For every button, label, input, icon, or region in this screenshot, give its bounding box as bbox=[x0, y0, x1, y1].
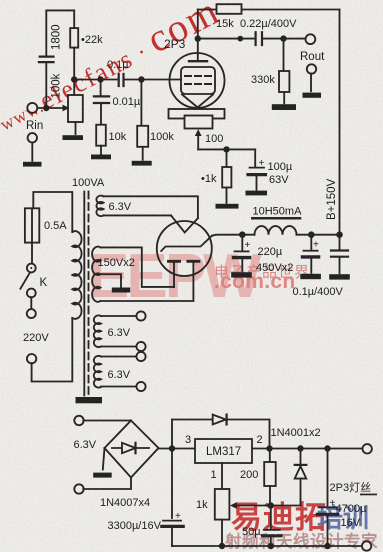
tube U1 2P3 envelope bbox=[170, 53, 225, 108]
ground 10k bbox=[91, 155, 111, 160]
capacitor 4700u bbox=[317, 449, 337, 547]
wire bridge to LM317 bbox=[159, 448, 196, 450]
diode D1 bypass bbox=[172, 415, 270, 449]
capacitor 0.1u 400V bbox=[331, 235, 348, 274]
node stray dot bbox=[237, 36, 243, 42]
tube U2 plate right bbox=[188, 261, 199, 300]
wire output rail bbox=[252, 448, 363, 450]
ground cap2 bbox=[300, 274, 321, 279]
node cap2 junction bbox=[308, 231, 315, 238]
tube 2P3 filament bbox=[182, 95, 213, 108]
node D2 out junction bbox=[297, 445, 303, 451]
wire input vertical bbox=[171, 420, 173, 519]
node adj junction bbox=[268, 502, 274, 508]
node cap1 junction bbox=[239, 231, 246, 238]
node cap3 junction bbox=[336, 231, 343, 238]
node 330k junction bbox=[280, 35, 286, 41]
choke L1 core bbox=[252, 217, 300, 220]
node 4700u bottom bbox=[324, 543, 330, 549]
terminal output minus bbox=[362, 541, 371, 550]
capacitor 0.22u 400V bbox=[256, 32, 262, 45]
underline 灯丝 bbox=[360, 494, 377, 496]
choke L1 coil bbox=[255, 226, 297, 235]
tube U2 filament V bbox=[171, 215, 198, 232]
terminal 220V upper bbox=[27, 309, 36, 318]
transformer core solid bbox=[83, 192, 85, 396]
regulator LM317 bbox=[195, 439, 252, 463]
potentiometer 100 hum bbox=[185, 116, 213, 150]
wire B+ rail bbox=[339, 10, 341, 235]
capacitor 3300u bbox=[162, 521, 183, 546]
ground 100u bbox=[246, 191, 268, 196]
ground pot bbox=[63, 135, 84, 140]
watermark www.elecfans.com diagonal bbox=[0, 0, 227, 139]
node 100k junction bbox=[138, 76, 144, 82]
ground cap3 bbox=[329, 274, 350, 279]
resistor 10k bbox=[96, 125, 106, 154]
bridge internal diode bbox=[112, 443, 149, 453]
bridge 1N4007x4 diamond bbox=[105, 421, 159, 478]
node 0.01u junction bbox=[97, 76, 103, 82]
winding 6.3V rectifier bbox=[96, 196, 198, 219]
capacitor 50u bbox=[263, 506, 281, 547]
node plate junction bbox=[195, 35, 201, 41]
potentiometer 1k adj bbox=[215, 463, 230, 546]
capacitor 100u 6.3V bbox=[248, 149, 266, 189]
node grid network junction bbox=[71, 76, 77, 82]
terminal sec2 top bbox=[136, 311, 145, 320]
capacitor 220u no2 bbox=[303, 235, 319, 273]
tube U2 cathode bar bbox=[161, 236, 212, 251]
resistor 330k bbox=[279, 39, 289, 104]
wire grid rail bbox=[74, 79, 181, 81]
scan noise overlay bbox=[0, 0, 1, 1]
resistor 15k bbox=[217, 4, 242, 14]
terminal 220V lower bbox=[27, 318, 72, 382]
ground Rout bbox=[303, 93, 322, 98]
winding primary bbox=[72, 231, 81, 319]
terminal Rin signal bbox=[27, 103, 37, 113]
ground core bbox=[76, 397, 103, 403]
tube U2 rectifier envelope bbox=[157, 221, 212, 276]
fuse 0.5A bbox=[25, 208, 39, 263]
transformer core dashed bbox=[88, 192, 90, 396]
tube U2 plate left bbox=[169, 261, 180, 287]
node D1 out junction bbox=[266, 445, 272, 451]
tube 2P3 grid box bbox=[181, 67, 215, 94]
terminal 6.3V in bottom bbox=[74, 478, 131, 494]
capacitor 0.01u bbox=[94, 80, 109, 125]
wire top-left frame bbox=[46, 10, 74, 55]
wire HV center tap bbox=[101, 274, 122, 287]
terminal Rout signal bbox=[306, 34, 316, 44]
wire plate top rail bbox=[198, 9, 340, 11]
resistor 100k grid leak bbox=[137, 80, 148, 160]
resistor 200 bbox=[264, 449, 276, 506]
terminal Rin ground bbox=[28, 133, 37, 161]
ground center tap bbox=[112, 288, 130, 293]
diode D2 protect bbox=[295, 449, 307, 506]
capacitor 220u no1 bbox=[234, 235, 250, 271]
winding 6.3V sec3 bbox=[94, 356, 137, 388]
wire B+ filter rail bbox=[212, 235, 340, 236]
wiper 1k arrow bbox=[230, 502, 301, 509]
terminal output plus bbox=[363, 444, 372, 453]
terminal sec3 top bbox=[136, 352, 145, 361]
capacitor 0.1u bbox=[119, 74, 124, 86]
terminal sec3 bottom bbox=[136, 382, 145, 391]
terminal sec2 bottom bbox=[136, 342, 145, 351]
ground bridge bbox=[93, 448, 112, 478]
ground 100k bbox=[132, 161, 152, 166]
terminal Rout ground bbox=[307, 64, 316, 91]
potentiometer 100k bbox=[36, 80, 83, 135]
wire mains top bbox=[33, 192, 72, 232]
node 1k bottom bbox=[219, 543, 225, 549]
winding 150Vx2 bbox=[92, 247, 193, 302]
filament terminal box bbox=[169, 109, 225, 119]
node cathode junction bbox=[223, 146, 229, 152]
tube 2P3 plate bbox=[189, 10, 207, 62]
wire bottom rail bbox=[172, 545, 362, 547]
winding 6.3V sec2 bbox=[94, 315, 137, 347]
ground cap1 bbox=[231, 272, 252, 277]
node input junction bbox=[169, 445, 175, 451]
switch K bbox=[20, 264, 35, 310]
node 4700u junction bbox=[324, 445, 330, 451]
resistor 22k bbox=[70, 28, 78, 79]
resistor 1k cathode bbox=[222, 149, 231, 202]
wire cathode rail bbox=[198, 148, 255, 150]
ground 1k bbox=[216, 204, 239, 209]
wire output coupling bbox=[198, 38, 305, 40]
node 50u bottom bbox=[268, 543, 274, 549]
capacitor 1800 bbox=[39, 57, 54, 108]
ground 330k bbox=[272, 104, 296, 110]
ground Rin bbox=[23, 162, 42, 167]
terminal 6.3V in top bbox=[74, 416, 131, 425]
